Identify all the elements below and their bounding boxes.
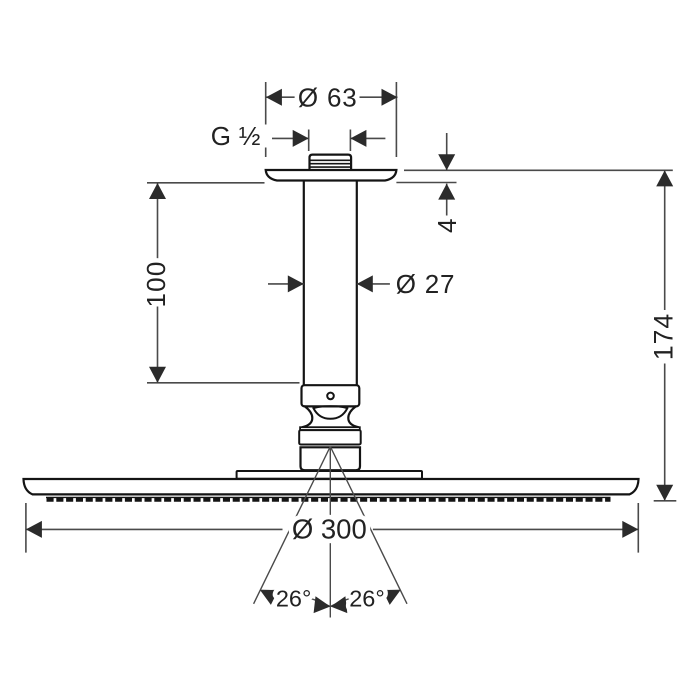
svg-text:100: 100: [141, 261, 171, 308]
svg-text:Ø 27: Ø 27: [396, 269, 456, 299]
svg-text:26°: 26°: [349, 585, 385, 611]
svg-text:4: 4: [432, 219, 462, 233]
svg-text:½: ½: [239, 121, 261, 151]
svg-text:26°: 26°: [276, 585, 312, 611]
svg-text:G: G: [211, 121, 231, 151]
svg-text:174: 174: [649, 313, 679, 360]
svg-text:Ø 300: Ø 300: [292, 513, 367, 544]
svg-text:Ø 63: Ø 63: [298, 83, 358, 113]
